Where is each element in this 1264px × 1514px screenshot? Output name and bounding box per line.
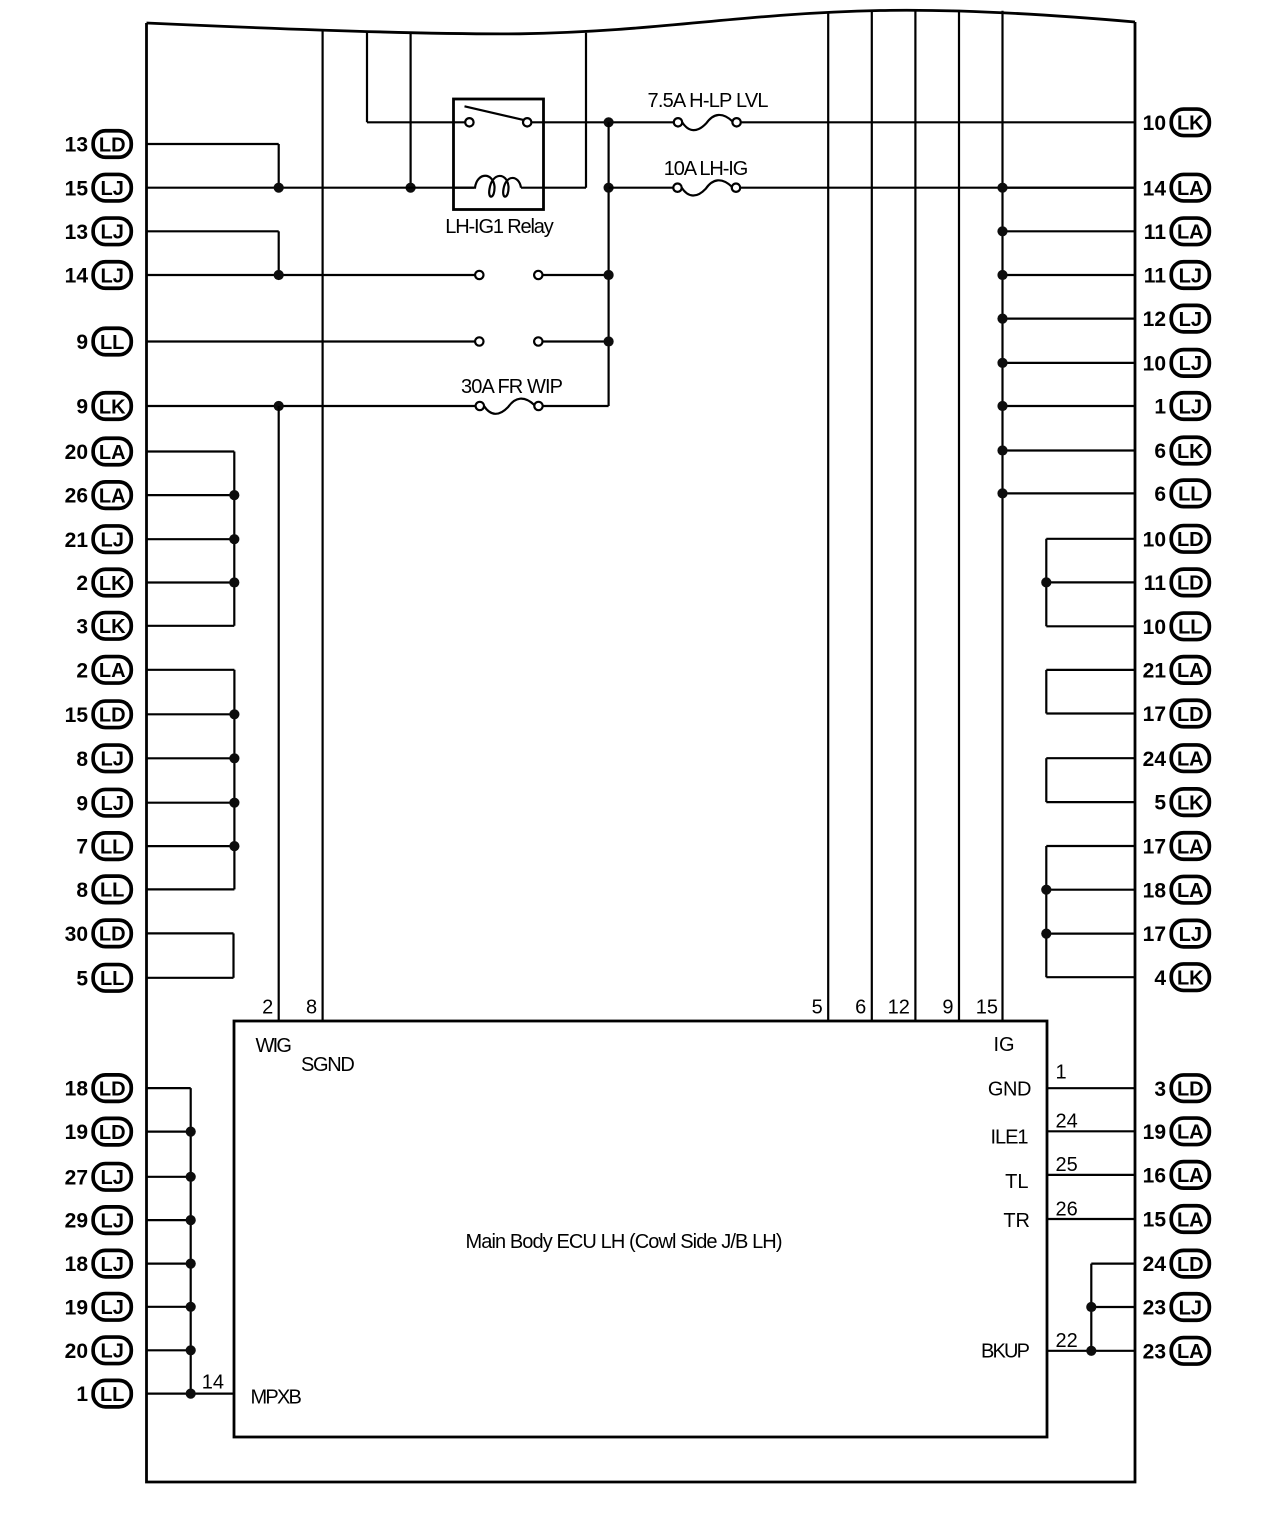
svg-text:LK: LK xyxy=(99,573,126,595)
svg-text:17: 17 xyxy=(1143,703,1166,726)
junction: MPX bus / 1 LL xyxy=(186,1389,196,1399)
svg-text:23: 23 xyxy=(1143,1297,1166,1320)
node 4 LK (right) xyxy=(1154,964,1209,991)
node 6 LK (right) xyxy=(1154,437,1209,464)
node 17 LJ (right) xyxy=(1143,920,1210,947)
node 29 LJ (left) xyxy=(65,1207,132,1234)
node 13 LD (left) xyxy=(65,131,132,158)
node 18 LD (left) xyxy=(65,1075,132,1102)
wire 24 LD xyxy=(1091,1262,1135,1264)
svg-text:LJ: LJ xyxy=(101,1341,124,1363)
svg-text:TR: TR xyxy=(1003,1210,1030,1232)
svg-text:LD: LD xyxy=(99,924,126,946)
svg-text:12: 12 xyxy=(888,997,910,1019)
svg-text:10: 10 xyxy=(1143,353,1166,376)
svg-text:LK: LK xyxy=(99,396,126,418)
svg-text:LJ: LJ xyxy=(1179,353,1202,375)
svg-text:LJ: LJ xyxy=(101,793,124,815)
svg-text:21: 21 xyxy=(1143,660,1167,683)
svg-text:7.5A H-LP LVL: 7.5A H-LP LVL xyxy=(648,90,769,112)
svg-text:18: 18 xyxy=(65,1078,89,1101)
svg-text:12: 12 xyxy=(1143,308,1166,331)
node 7 LL (left) xyxy=(76,833,131,860)
svg-text:26: 26 xyxy=(65,485,88,508)
relay LH-IG1 box xyxy=(454,99,544,210)
wire: drop from switch output to 10A LH-IG line xyxy=(607,122,609,406)
node 18 LJ (left) xyxy=(65,1250,132,1277)
svg-text:1: 1 xyxy=(1154,396,1166,419)
svg-text:LJ: LJ xyxy=(101,1297,124,1319)
relay switch contact right xyxy=(523,118,531,126)
wire: IG bus drop to ECU pin 15 xyxy=(1001,11,1003,1021)
wire 23 LJ xyxy=(1091,1306,1135,1308)
svg-text:LA: LA xyxy=(1177,178,1204,200)
svg-text:LK: LK xyxy=(1177,792,1204,814)
svg-text:30: 30 xyxy=(65,923,88,946)
svg-text:LJ: LJ xyxy=(1179,396,1202,418)
svg-text:GND: GND xyxy=(988,1079,1032,1101)
svg-text:9: 9 xyxy=(76,792,88,815)
svg-text:10: 10 xyxy=(1143,528,1166,551)
svg-text:1: 1 xyxy=(76,1383,88,1406)
fuse 10A LH-IG xyxy=(664,158,749,196)
node 23 LJ (right) xyxy=(1143,1294,1210,1321)
svg-text:23: 23 xyxy=(1143,1340,1166,1363)
node 24 LD (right) xyxy=(1143,1250,1210,1277)
node 8 LJ (left) xyxy=(76,745,131,772)
node 11 LD (right) xyxy=(1144,569,1210,596)
node 14 LJ (left) xyxy=(65,262,132,289)
border frame (wavy cut top edge) xyxy=(147,10,1136,1482)
svg-text:LK: LK xyxy=(1177,113,1204,135)
svg-text:LL: LL xyxy=(1178,617,1202,639)
svg-text:14: 14 xyxy=(65,265,89,288)
svg-text:9: 9 xyxy=(76,396,88,419)
node 24 LA (right) xyxy=(1143,745,1210,772)
svg-text:LJ: LJ xyxy=(101,1210,124,1232)
node 20 LA (left) xyxy=(65,438,132,465)
node 27 LJ (left) xyxy=(65,1164,132,1191)
svg-text:LD: LD xyxy=(1177,573,1204,595)
svg-text:25: 25 xyxy=(1056,1154,1078,1176)
wire group 17 LA / 18 LA / 17 LJ / 4 LK xyxy=(1041,846,1135,977)
node 11 LJ (right) xyxy=(1144,262,1210,289)
svg-text:11: 11 xyxy=(1144,572,1167,595)
node 9 LL (left) xyxy=(76,328,131,355)
node 15 LA (right) xyxy=(1143,1206,1210,1233)
svg-text:7: 7 xyxy=(76,836,88,859)
svg-text:LD: LD xyxy=(99,1122,126,1144)
wire group 18 LD .. 20 LJ (MPX bus) xyxy=(147,1088,196,1394)
node 21 LA (right) xyxy=(1143,657,1210,684)
svg-text:LJ: LJ xyxy=(1179,265,1202,287)
svg-text:22: 22 xyxy=(1056,1330,1078,1352)
junction: 13 LJ / 14 LJ xyxy=(274,270,284,280)
svg-text:LD: LD xyxy=(99,705,126,727)
wire group 10 LD / 11 LD / 10 LL xyxy=(1041,539,1135,627)
svg-text:11: 11 xyxy=(1144,221,1167,244)
svg-text:LJ: LJ xyxy=(1179,309,1202,331)
svg-text:18: 18 xyxy=(65,1253,89,1276)
svg-text:29: 29 xyxy=(65,1210,88,1233)
svg-text:WIG: WIG xyxy=(256,1035,292,1057)
svg-text:3: 3 xyxy=(76,615,88,638)
node 1 LJ (right) xyxy=(1154,393,1209,420)
wire: feed drop to relay switch xyxy=(366,32,368,122)
wire: feed drop to ECU pin 9 xyxy=(958,10,960,1021)
svg-text:LA: LA xyxy=(1177,660,1204,682)
node 9 LJ (left) xyxy=(76,789,131,816)
svg-text:20: 20 xyxy=(65,441,88,464)
svg-text:1: 1 xyxy=(1056,1062,1067,1084)
node 21 LJ (left) xyxy=(65,526,132,553)
node 13 LJ (left) xyxy=(65,218,132,245)
svg-text:LA: LA xyxy=(1177,1165,1204,1187)
svg-text:LL: LL xyxy=(100,836,124,858)
node 10 LK (right) xyxy=(1143,109,1210,136)
svg-text:2: 2 xyxy=(76,572,88,595)
svg-text:5: 5 xyxy=(76,967,88,990)
node 2 LA (left) xyxy=(76,657,131,684)
node 16 LA (right) xyxy=(1143,1162,1210,1189)
svg-text:LJ: LJ xyxy=(101,222,124,244)
svg-text:LA: LA xyxy=(99,660,126,682)
wire: switch output to 7.5A fuse and 10 LK xyxy=(531,121,673,123)
svg-text:LL: LL xyxy=(100,880,124,902)
node 10 LD (right) xyxy=(1143,526,1210,553)
svg-text:21: 21 xyxy=(65,529,89,552)
svg-text:LK: LK xyxy=(1177,968,1204,990)
svg-text:10: 10 xyxy=(1143,616,1166,639)
svg-text:10A LH-IG: 10A LH-IG xyxy=(664,158,749,180)
node 15 LD (left) xyxy=(65,701,132,728)
wire: 10A fuse line to 14 LA xyxy=(609,187,674,189)
svg-text:15: 15 xyxy=(1143,1209,1167,1232)
svg-text:LL: LL xyxy=(100,968,124,990)
node 10 LJ (right) xyxy=(1143,350,1210,377)
node 3 LK (left) xyxy=(76,613,131,640)
svg-text:LJ: LJ xyxy=(101,1167,124,1189)
svg-text:9: 9 xyxy=(942,997,953,1019)
svg-text:LJ: LJ xyxy=(1179,924,1202,946)
wire group 30 LD / 5 LL xyxy=(147,933,234,977)
relay switch contact left xyxy=(465,118,473,126)
svg-text:LA: LA xyxy=(1177,222,1204,244)
connector break contacts 9 LL xyxy=(475,337,483,345)
svg-text:LD: LD xyxy=(99,1078,126,1100)
wire: feed drop to ECU pin 5 xyxy=(827,12,829,1021)
junction: 10A fuse feed xyxy=(604,183,614,193)
IG bus junctions and wires to right connectors xyxy=(997,183,1135,499)
node 18 LA (right) xyxy=(1143,876,1210,903)
wire 9 LK to 30A fuse xyxy=(147,405,476,407)
svg-text:LJ: LJ xyxy=(101,749,124,771)
svg-text:TL: TL xyxy=(1005,1171,1028,1193)
svg-text:LJ: LJ xyxy=(1179,1297,1202,1319)
svg-text:24: 24 xyxy=(1143,748,1167,771)
wire ECU pin 25 TL to 16 LA xyxy=(1047,1174,1135,1176)
svg-text:BKUP: BKUP xyxy=(981,1341,1030,1363)
svg-text:6: 6 xyxy=(855,997,866,1019)
svg-text:20: 20 xyxy=(65,1340,88,1363)
svg-text:24: 24 xyxy=(1143,1253,1167,1276)
junction: 23 LJ branch xyxy=(1086,1302,1096,1312)
node 9 LK (left) xyxy=(76,393,131,420)
svg-text:8: 8 xyxy=(76,748,88,771)
node 2 LK (left) xyxy=(76,569,131,596)
svg-text:6: 6 xyxy=(1154,440,1166,463)
junction: 9 LL / IG drop xyxy=(604,336,614,346)
svg-text:17: 17 xyxy=(1143,923,1166,946)
svg-text:LL: LL xyxy=(100,1384,124,1406)
svg-text:LA: LA xyxy=(99,485,126,507)
svg-text:LA: LA xyxy=(1177,836,1204,858)
wire: relay coil right terminal up to top xyxy=(585,33,587,188)
svg-text:LA: LA xyxy=(99,442,126,464)
svg-text:26: 26 xyxy=(1056,1199,1078,1221)
node 30 LD (left) xyxy=(65,920,132,947)
node 11 LA (right) xyxy=(1144,218,1210,245)
svg-text:16: 16 xyxy=(1143,1165,1166,1188)
junction: switch output / drop to 10A fuse xyxy=(604,117,614,127)
wire group 21 LA / 17 LD xyxy=(1046,670,1135,714)
wire: feed drop to ECU pin 8 (SGND) xyxy=(322,32,324,1022)
svg-text:13: 13 xyxy=(65,134,88,157)
wire: feed drop to relay coil line xyxy=(410,33,412,188)
node 3 LD (right) xyxy=(1154,1075,1209,1102)
node 26 LA (left) xyxy=(65,482,132,509)
svg-text:LJ: LJ xyxy=(101,265,124,287)
node 6 LL (right) xyxy=(1154,480,1209,507)
wire ECU pin 22 BKUP to 23 LA xyxy=(1047,1350,1135,1352)
wire: feed drop to ECU pin 6 xyxy=(871,11,873,1021)
wire 13 LJ xyxy=(147,230,279,232)
svg-text:6: 6 xyxy=(1154,483,1166,506)
node 8 LL (left) xyxy=(76,876,131,903)
svg-text:24: 24 xyxy=(1056,1110,1078,1132)
node 14 LA (right) xyxy=(1143,174,1210,201)
svg-text:11: 11 xyxy=(1144,265,1167,288)
node 17 LA (right) xyxy=(1143,833,1210,860)
svg-text:LD: LD xyxy=(99,134,126,156)
wire ECU pin 26 TR to 15 LA xyxy=(1047,1218,1135,1220)
node 5 LL (left) xyxy=(76,965,131,992)
svg-text:LA: LA xyxy=(1177,1209,1204,1231)
svg-text:LD: LD xyxy=(1177,529,1204,551)
svg-text:15: 15 xyxy=(65,704,89,727)
svg-text:LJ: LJ xyxy=(101,530,124,552)
svg-text:2: 2 xyxy=(76,659,88,682)
svg-text:15: 15 xyxy=(65,177,89,200)
svg-text:LA: LA xyxy=(1177,1122,1204,1144)
svg-text:LJ: LJ xyxy=(101,1254,124,1276)
wire 1 LL to ECU pin 14 (MPXB) xyxy=(147,1392,235,1394)
wire ECU pin 1 GND to 3 LD xyxy=(1047,1087,1135,1089)
svg-text:LJ: LJ xyxy=(101,178,124,200)
wire 13 LD xyxy=(147,143,279,145)
node 1 LL (left) xyxy=(76,1380,131,1407)
connector break contacts 14 LJ xyxy=(475,271,483,279)
svg-text:SGND: SGND xyxy=(301,1054,355,1076)
wire: feed drop to ECU pin 12 xyxy=(914,10,916,1021)
svg-text:MPXB: MPXB xyxy=(251,1387,302,1409)
svg-text:LL: LL xyxy=(1178,484,1202,506)
node 19 LA (right) xyxy=(1143,1118,1210,1145)
node 17 LD (right) xyxy=(1143,700,1210,727)
svg-text:ILE1: ILE1 xyxy=(991,1127,1029,1149)
wire ECU pin 24 ILE1 to 19 LA xyxy=(1047,1130,1135,1132)
svg-text:LK: LK xyxy=(1177,441,1204,463)
svg-text:19: 19 xyxy=(1143,1121,1166,1144)
svg-text:19: 19 xyxy=(65,1296,88,1319)
svg-text:27: 27 xyxy=(65,1166,88,1189)
node 15 LJ (left) xyxy=(65,174,132,201)
svg-text:4: 4 xyxy=(1154,967,1166,990)
svg-text:30A FR WIP: 30A FR WIP xyxy=(461,376,563,398)
node 12 LJ (right) xyxy=(1143,305,1210,332)
svg-text:14: 14 xyxy=(202,1372,224,1394)
node 19 LJ (left) xyxy=(65,1294,132,1321)
svg-text:10: 10 xyxy=(1143,112,1166,135)
svg-text:LD: LD xyxy=(1177,1079,1204,1101)
node 10 LL (right) xyxy=(1143,613,1210,640)
ECU: Main Body ECU LH (Cowl Side J/B LH) xyxy=(234,1021,1047,1437)
svg-text:LA: LA xyxy=(1177,880,1204,902)
junction: 13 LD / 15 LJ xyxy=(274,183,284,193)
relay coil xyxy=(454,176,522,197)
svg-text:8: 8 xyxy=(76,879,88,902)
relay switch blade xyxy=(465,106,525,120)
svg-text:LK: LK xyxy=(99,616,126,638)
svg-text:LL: LL xyxy=(100,332,124,354)
svg-text:IG: IG xyxy=(994,1034,1015,1056)
fuse 7.5A H-LP LVL xyxy=(648,90,769,130)
node 20 LJ (left) xyxy=(65,1337,132,1364)
wire: drop from 9 LK line to ECU pin 2 (WIG) xyxy=(278,406,280,1021)
svg-text:LA: LA xyxy=(1177,1341,1204,1363)
svg-text:Main Body ECU LH (Cowl Side J/: Main Body ECU LH (Cowl Side J/B LH) xyxy=(466,1231,783,1253)
fuse 30A FR WIP xyxy=(461,376,563,414)
svg-text:13: 13 xyxy=(65,221,88,244)
svg-text:5: 5 xyxy=(1154,792,1166,815)
svg-text:19: 19 xyxy=(65,1121,88,1144)
node 19 LD (left) xyxy=(65,1118,132,1145)
svg-text:15: 15 xyxy=(976,997,998,1019)
wire group 2 LA / 15 LD / 8 LJ / 9 LJ / 7 LL / 8 LL xyxy=(147,670,240,890)
svg-text:17: 17 xyxy=(1143,836,1166,859)
junction: 14 LJ / IG drop xyxy=(604,270,614,280)
node 5 LK (right) xyxy=(1154,789,1209,816)
svg-text:5: 5 xyxy=(812,997,823,1019)
svg-text:8: 8 xyxy=(306,997,317,1019)
svg-text:LD: LD xyxy=(1177,1254,1204,1276)
junction: coil line / feed drop xyxy=(406,183,416,193)
junction: BKUP / 23 LA branch xyxy=(1086,1346,1096,1356)
wire group 24 LA / 5 LK xyxy=(1046,758,1135,802)
junction: 9 LK / drop to ECU pin 2 xyxy=(274,401,284,411)
svg-text:9: 9 xyxy=(76,331,88,354)
svg-text:LD: LD xyxy=(1177,704,1204,726)
svg-text:2: 2 xyxy=(262,997,273,1019)
wire 14 LJ with inline connector xyxy=(147,274,476,276)
node 23 LA (right) xyxy=(1143,1338,1210,1365)
svg-text:18: 18 xyxy=(1143,879,1167,902)
wire group 20 LA / 26 LA / 21 LJ / 2 LK / 3 LK xyxy=(147,452,240,626)
wire 9 LL with inline connector xyxy=(147,340,476,342)
svg-text:LA: LA xyxy=(1177,749,1204,771)
svg-text:3: 3 xyxy=(1154,1078,1166,1101)
svg-text:LH-IG1 Relay: LH-IG1 Relay xyxy=(445,216,554,238)
svg-text:14: 14 xyxy=(1143,177,1167,200)
wire 15 LJ to relay coil xyxy=(147,187,475,189)
